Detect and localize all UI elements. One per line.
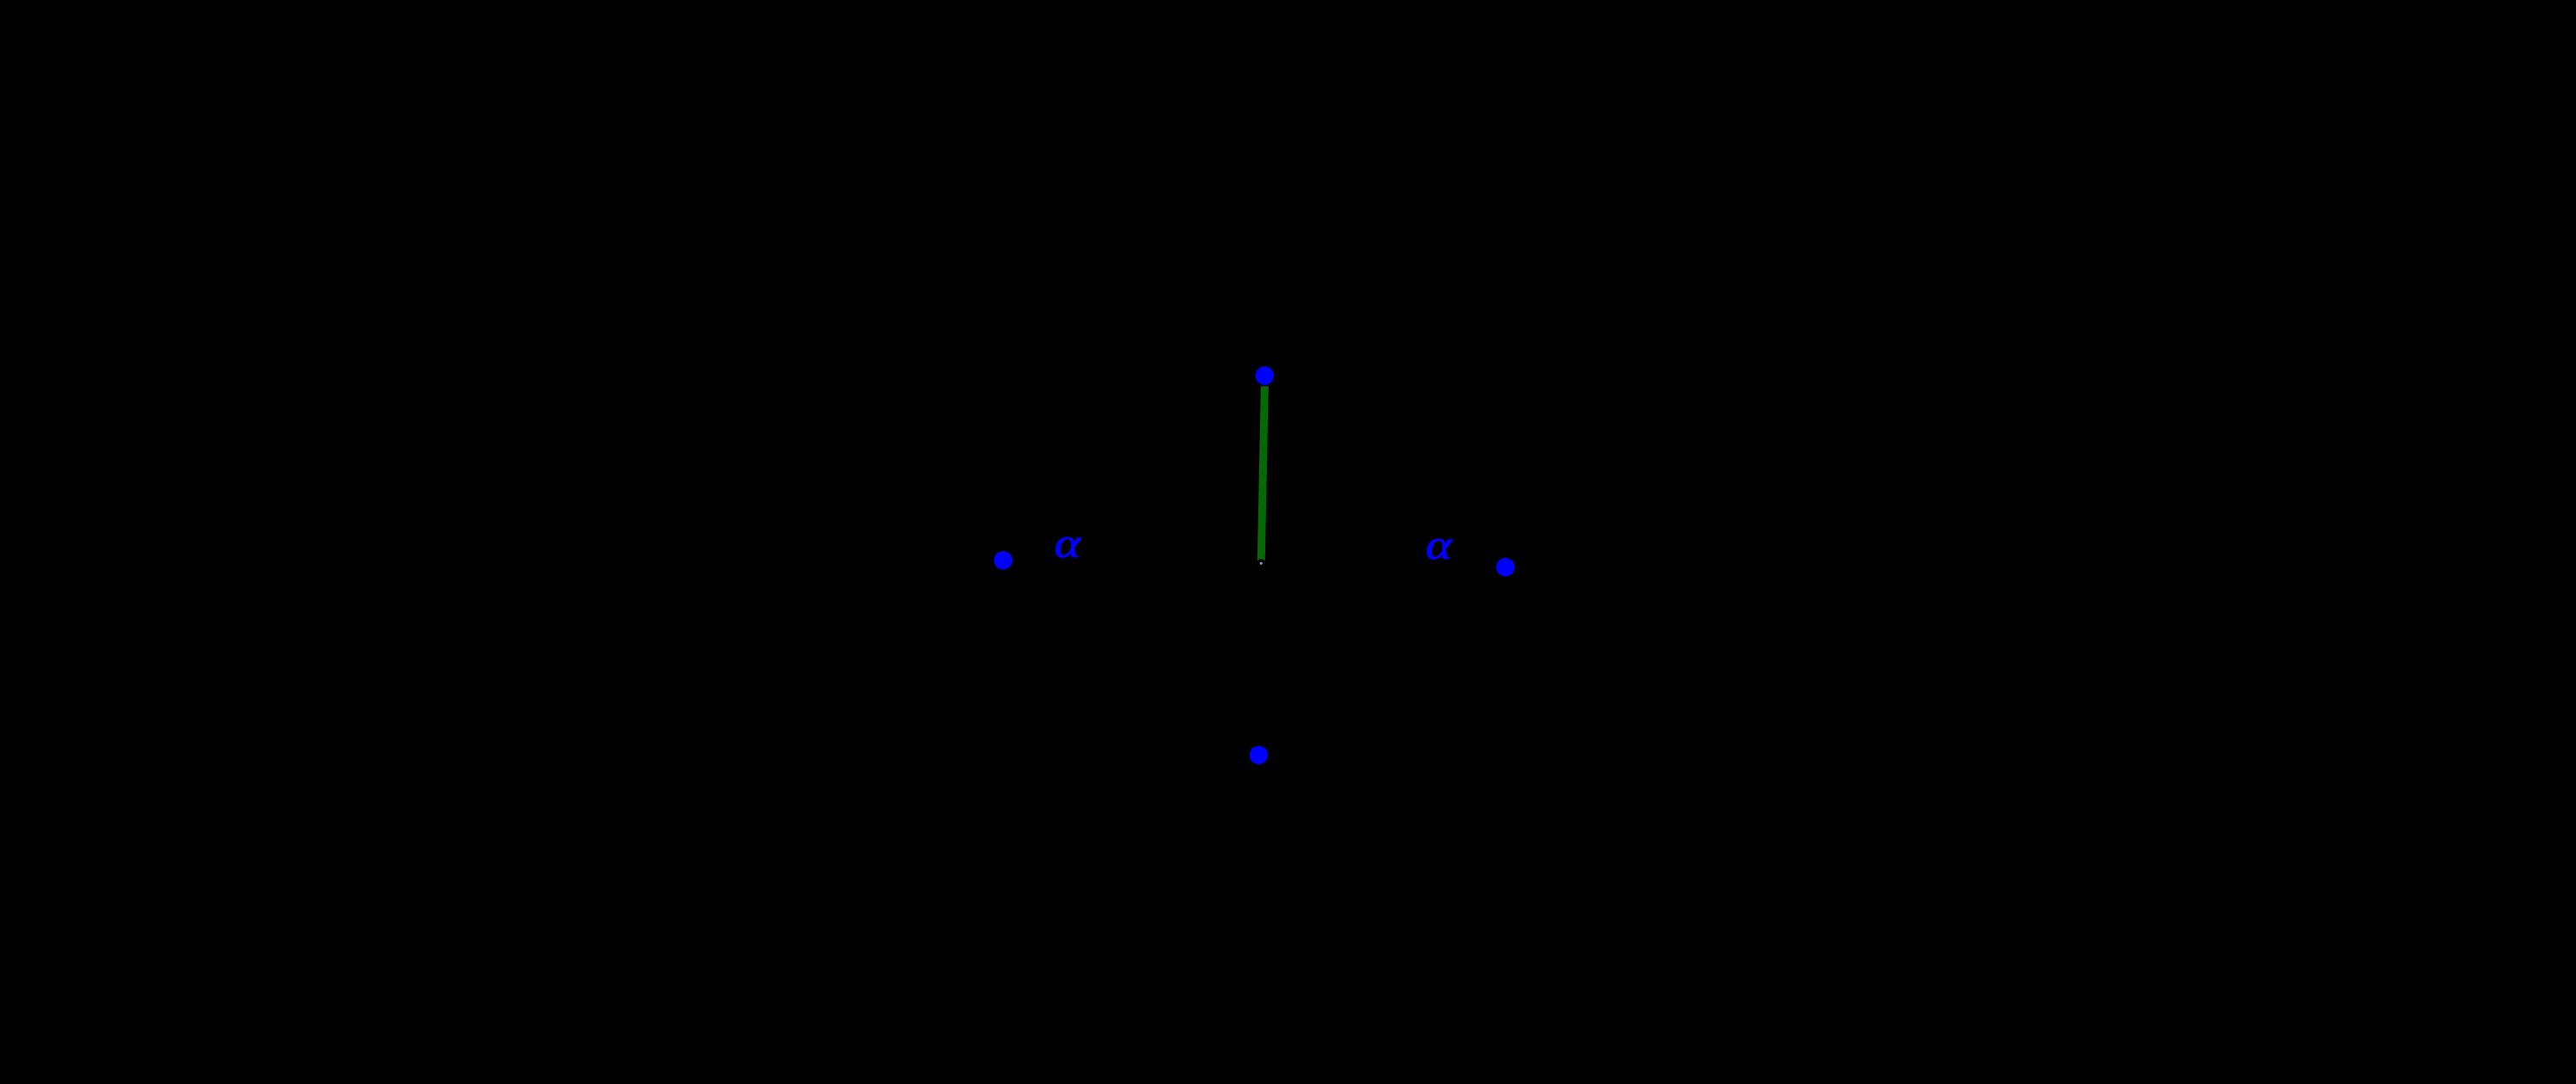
node B: left blue point — [994, 551, 1013, 570]
svg-text:α: α — [1426, 521, 1453, 568]
node C: right blue point — [1496, 558, 1515, 577]
node A: top blue point — [1256, 366, 1275, 385]
node pivot: small dark circle with light center at bottom end of rod — [1257, 559, 1265, 567]
node D: bottom blue point — [1250, 746, 1269, 765]
wire: green rod segment from pivot up to top point — [1261, 386, 1264, 563]
svg-text:α: α — [1055, 519, 1082, 566]
